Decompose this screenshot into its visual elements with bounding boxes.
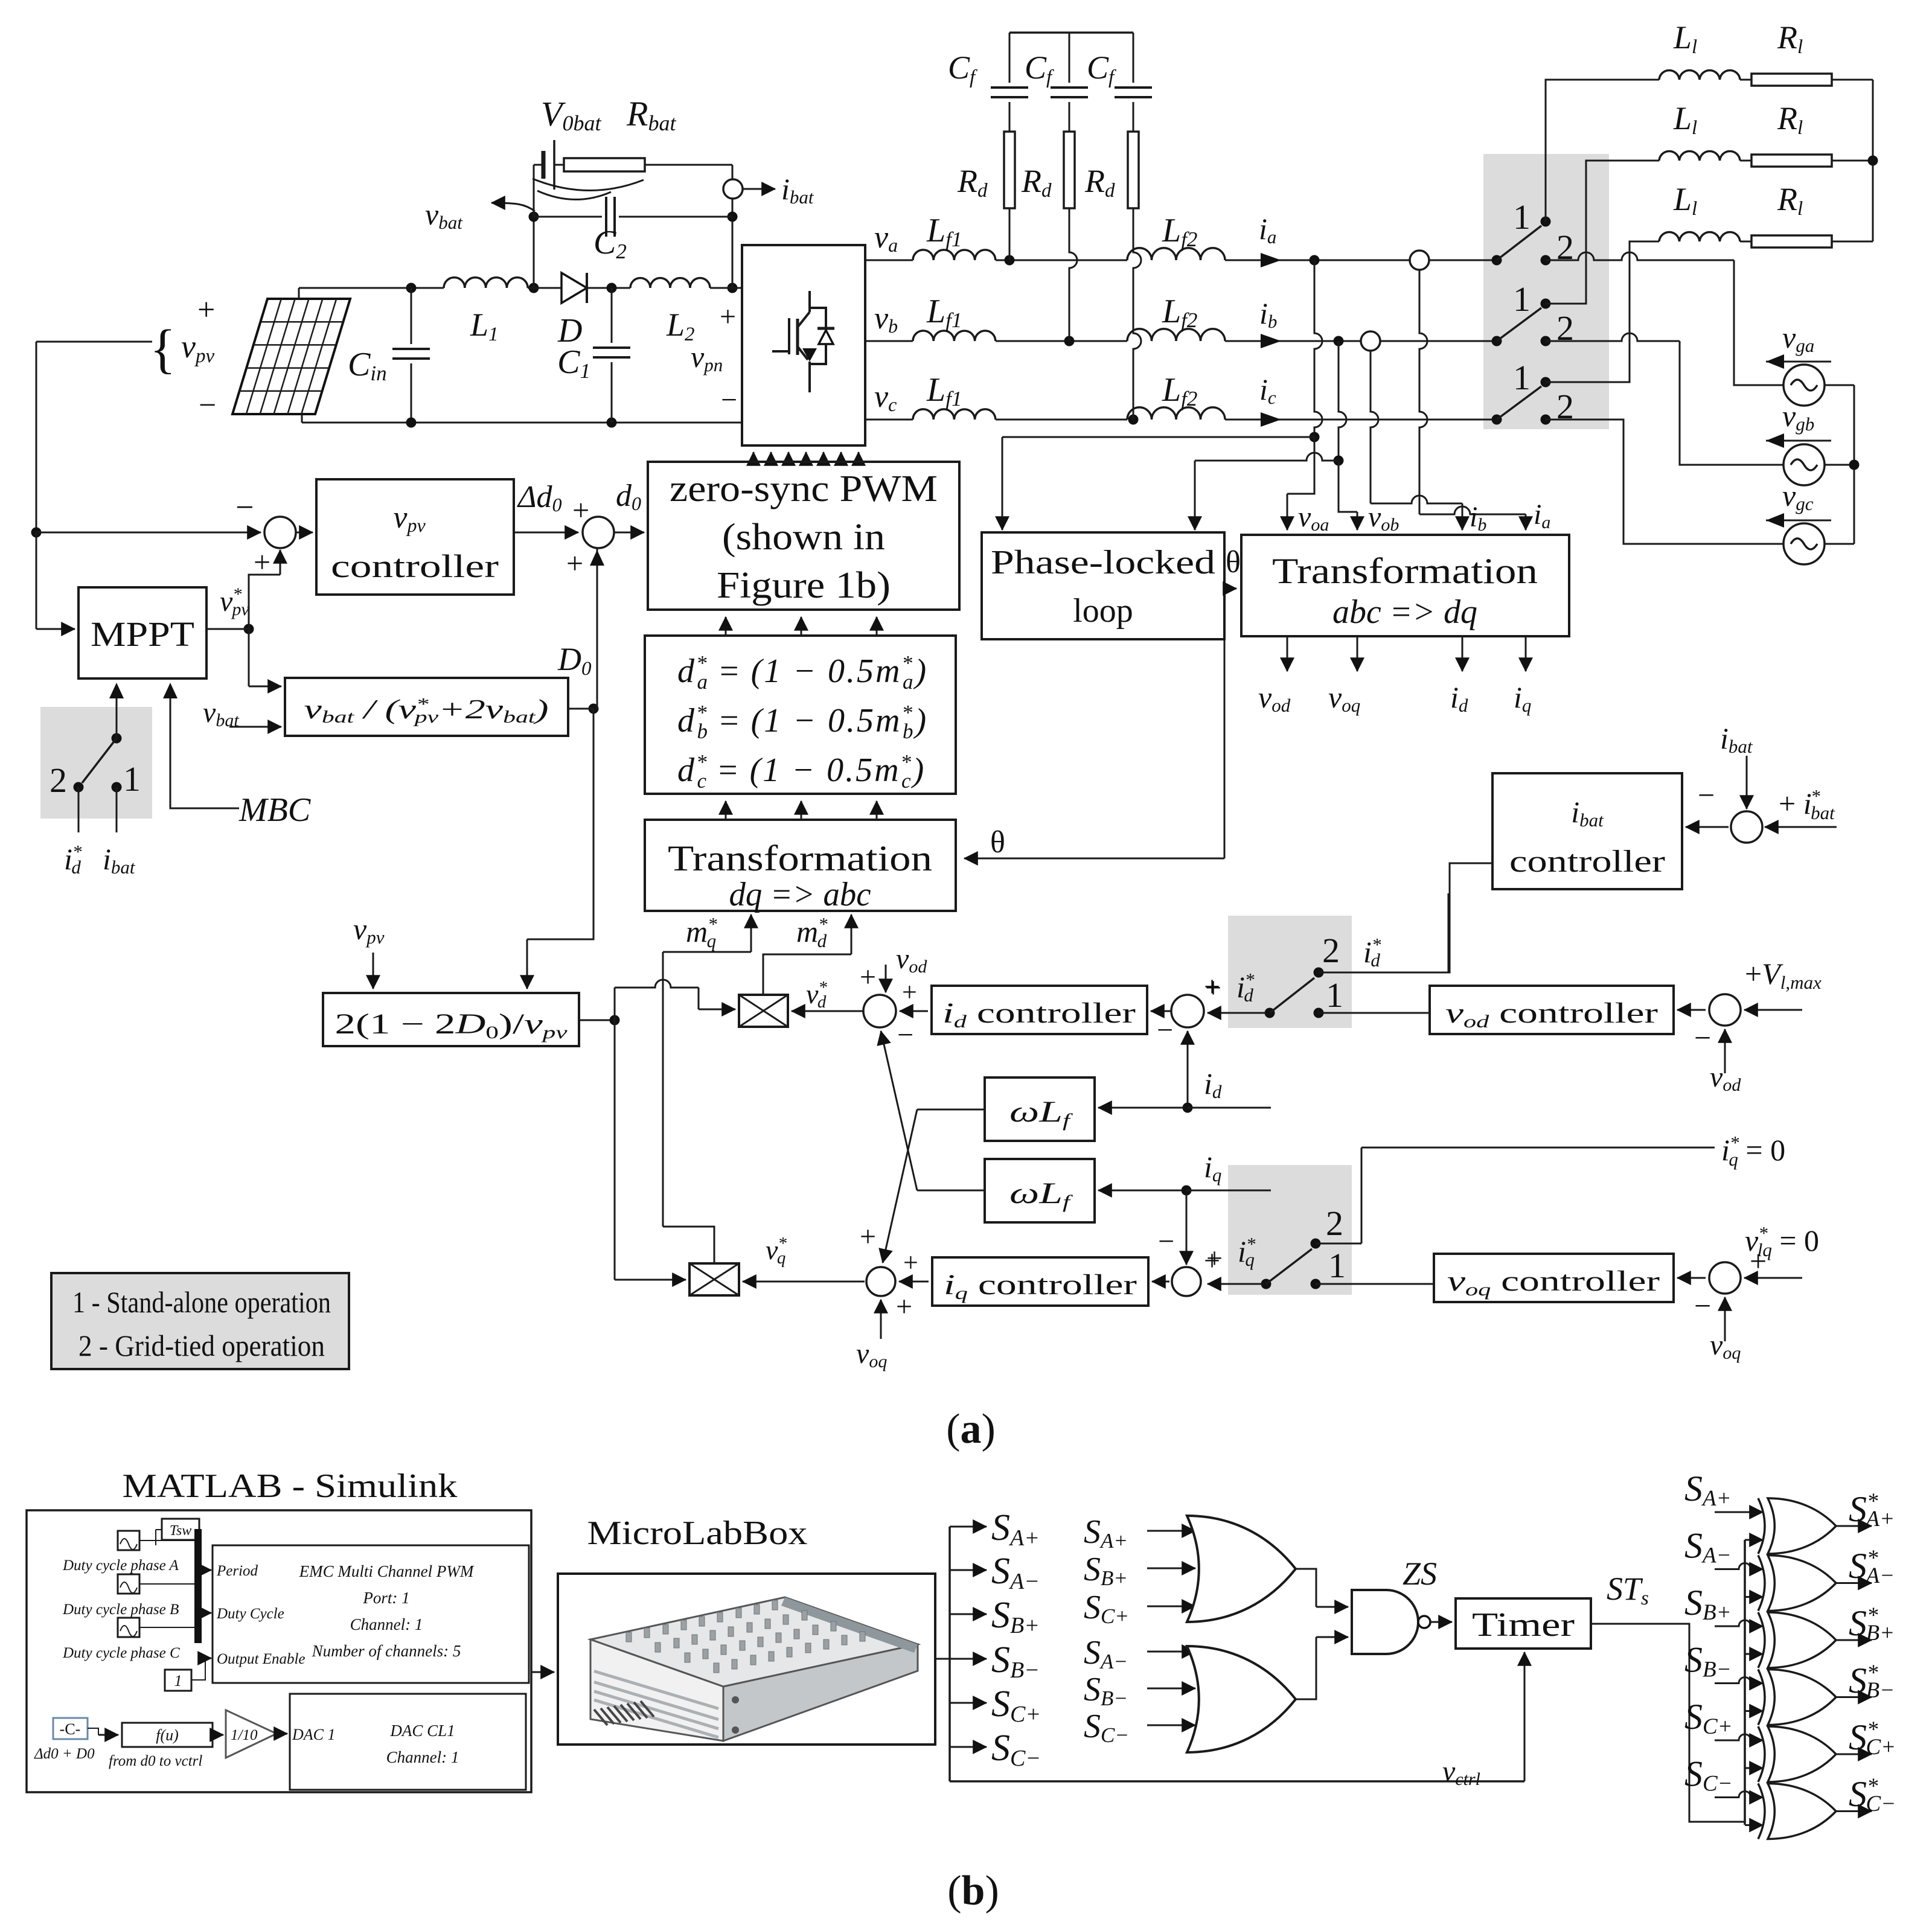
svg-text:v*lq = 0: v*lq = 0 — [1745, 1222, 1819, 1260]
svg-text:Channel: 1: Channel: 1 — [386, 1748, 459, 1766]
svg-text:−: − — [1158, 1225, 1174, 1257]
svg-text:(shown in: (shown in — [722, 517, 885, 558]
svg-text:id controller: id controller — [942, 997, 1136, 1032]
svg-text:+: + — [860, 1221, 876, 1253]
svg-text:m*d: m*d — [796, 913, 828, 951]
svg-text:1: 1 — [1326, 975, 1343, 1015]
svg-text:1: 1 — [123, 759, 141, 799]
svg-text:+: + — [902, 977, 917, 1007]
svg-text:Transformation: Transformation — [1272, 551, 1538, 591]
svg-text:i*d: i*d — [1236, 969, 1255, 1006]
svg-text:+: + — [720, 301, 736, 333]
svg-text:zero-sync PWM: zero-sync PWM — [670, 468, 938, 509]
svg-text:Duty cycle phase B: Duty cycle phase B — [62, 1601, 179, 1618]
svg-text:Duty cycle phase C: Duty cycle phase C — [62, 1645, 180, 1661]
svg-text:2: 2 — [50, 761, 67, 800]
svg-text:−: − — [1698, 778, 1715, 812]
svg-text:+: + — [896, 1291, 912, 1323]
svg-text:from d0 to vctrl: from d0 to vctrl — [109, 1753, 202, 1769]
svg-text:dq => abc: dq => abc — [729, 876, 871, 913]
svg-text:+: + — [903, 1248, 918, 1277]
svg-text:d*c = (1 − 0.5m*c): d*c = (1 − 0.5m*c) — [677, 750, 926, 793]
svg-text:Duty cycle phase A: Duty cycle phase A — [62, 1557, 179, 1574]
svg-text:1: 1 — [1513, 358, 1531, 397]
svg-text:Channel: 1: Channel: 1 — [350, 1615, 423, 1633]
svg-text:{: { — [150, 319, 176, 379]
svg-text:i*q = 0: i*q = 0 — [1721, 1132, 1785, 1170]
svg-text:2: 2 — [1322, 931, 1340, 970]
svg-text:+: + — [566, 546, 583, 580]
svg-text:d*a = (1 − 0.5m*a): d*a = (1 − 0.5m*a) — [677, 651, 928, 694]
svg-text:m*q: m*q — [686, 913, 717, 951]
svg-text:loop: loop — [1073, 592, 1133, 630]
svg-text:Output Enable: Output Enable — [217, 1651, 305, 1667]
svg-text:v*q: v*q — [766, 1234, 787, 1268]
svg-text:+: + — [572, 493, 589, 527]
svg-text:MBC: MBC — [238, 791, 311, 829]
svg-text:d*b = (1 − 0.5m*b): d*b = (1 − 0.5m*b) — [677, 701, 928, 743]
svg-text:-C-: -C- — [60, 1720, 81, 1738]
svg-text:−: − — [235, 489, 254, 525]
svg-text:(a): (a) — [946, 1406, 996, 1452]
svg-text:MicroLabBox: MicroLabBox — [587, 1515, 808, 1552]
svg-text:abc => dq: abc => dq — [1332, 593, 1477, 631]
svg-text:Transformation: Transformation — [668, 838, 932, 878]
svg-text:i*q: i*q — [1238, 1233, 1256, 1270]
svg-text:EMC Multi Channel PWM: EMC Multi Channel PWM — [299, 1562, 475, 1580]
svg-text:Number of channels: 5: Number of channels: 5 — [312, 1642, 461, 1660]
svg-text:i*d: i*d — [1363, 934, 1381, 971]
svg-text:controller: controller — [1509, 844, 1665, 879]
svg-text:θ: θ — [990, 825, 1005, 860]
svg-text:MATLAB - Simulink: MATLAB - Simulink — [123, 1467, 458, 1505]
svg-text:1: 1 — [1513, 197, 1531, 237]
svg-text:f(u): f(u) — [156, 1726, 179, 1744]
svg-text:DAC 1: DAC 1 — [292, 1726, 336, 1743]
svg-text:v*d: v*d — [806, 978, 827, 1012]
svg-text:−: − — [897, 1019, 913, 1051]
svg-text:1/10: 1/10 — [231, 1727, 258, 1743]
svg-text:1: 1 — [1513, 279, 1531, 319]
svg-text:1 - Stand-alone operation: 1 - Stand-alone operation — [72, 1285, 331, 1319]
svg-text:2(1 − 2D0)/vpv: 2(1 − 2D0)/vpv — [335, 1008, 568, 1042]
svg-text:−: − — [1694, 1289, 1711, 1323]
svg-text:+: + — [860, 961, 876, 993]
svg-text:−: − — [1157, 1014, 1173, 1046]
svg-text:Period: Period — [216, 1563, 258, 1579]
svg-text:2 - Grid-tied operation: 2 - Grid-tied operation — [78, 1329, 325, 1362]
svg-text:Figure 1b): Figure 1b) — [717, 565, 891, 606]
svg-text:+: + — [197, 293, 215, 327]
svg-text:DAC CL1: DAC CL1 — [389, 1722, 455, 1740]
svg-text:−: − — [721, 384, 737, 416]
svg-text:Phase-locked: Phase-locked — [991, 544, 1215, 581]
svg-text:θ: θ — [1226, 545, 1241, 579]
svg-text:iq controller: iq controller — [944, 1269, 1137, 1303]
svg-text:+: + — [1205, 972, 1221, 1004]
svg-text:Timer: Timer — [1472, 1606, 1575, 1644]
svg-text:MPPT: MPPT — [91, 615, 194, 654]
svg-text:1: 1 — [1328, 1246, 1346, 1285]
svg-text:Δd0 + D0: Δd0 + D0 — [34, 1746, 95, 1762]
svg-text:−: − — [1694, 1021, 1711, 1055]
svg-text:ZS: ZS — [1403, 1556, 1437, 1592]
svg-text:1: 1 — [174, 1672, 182, 1690]
svg-text:controller: controller — [331, 548, 499, 584]
svg-text:+: + — [1206, 1242, 1223, 1274]
svg-text:Duty Cycle: Duty Cycle — [216, 1606, 284, 1622]
svg-text:−: − — [199, 388, 216, 423]
svg-text:(b): (b) — [947, 1868, 999, 1914]
svg-text:i*d: i*d — [64, 841, 82, 878]
svg-text:2: 2 — [1326, 1204, 1343, 1243]
svg-text:Port: 1: Port: 1 — [362, 1589, 409, 1607]
svg-text:Tsw: Tsw — [170, 1523, 192, 1539]
